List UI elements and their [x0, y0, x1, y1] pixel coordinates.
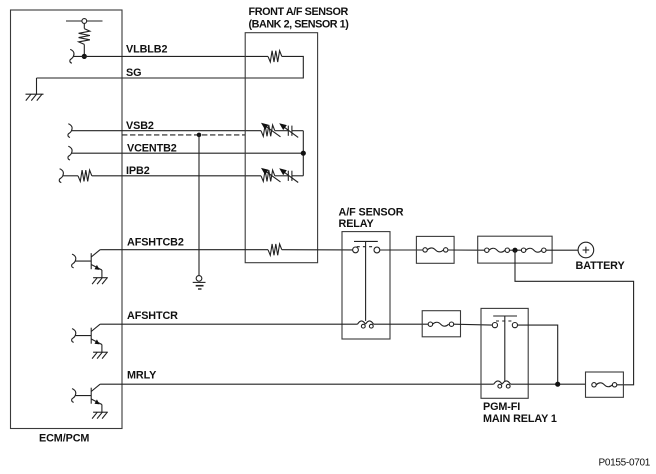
svg-text:A/F SENSOR: A/F SENSOR	[339, 206, 404, 218]
svg-text:VLBLB2: VLBLB2	[126, 43, 167, 55]
svg-text:VCENTB2: VCENTB2	[127, 142, 177, 154]
connector squiggle (VSB2)	[68, 124, 72, 138]
wire IPB2 left	[63, 175, 78, 177]
wire (fuse block junction down)	[515, 250, 634, 385]
battery terminal	[578, 242, 594, 258]
wire AFSHTCB2	[100, 249, 268, 251]
svg-text:RELAY: RELAY	[339, 218, 375, 230]
node junction (dashed line)	[197, 133, 202, 138]
wire VLBLB2	[73, 55, 268, 57]
fuse F3	[521, 248, 546, 252]
connector squiggle (IPB2)	[59, 169, 63, 183]
relay K1 contact right	[374, 247, 380, 253]
relay K1 armature bar	[354, 240, 378, 242]
resistor (sensor heater)	[268, 244, 282, 255]
relay K1 coil	[358, 321, 374, 328]
battery plus	[583, 247, 590, 254]
resistor (sensor label element)	[268, 51, 282, 62]
wire (resistor to node)	[83, 44, 85, 56]
fuse block (double)	[478, 236, 552, 263]
wire (sensor right vertical)	[302, 131, 304, 176]
fuse F5	[592, 383, 617, 387]
dashed line (VSB2 shield)	[122, 134, 245, 136]
connector squiggle (VLBLB2)	[70, 49, 74, 63]
wire (pull-up top rail)	[66, 20, 103, 22]
PGM-FI MAIN RELAY 1 box	[481, 308, 528, 398]
relay K1 dashed contact	[357, 246, 374, 248]
wire (coil out to junction)	[511, 383, 586, 385]
fuse box 2 (relay control)	[422, 311, 460, 337]
variable capacitor (sensor cell, IPB2)	[279, 168, 298, 182]
relay K2 contact right	[512, 323, 517, 328]
fuse F1	[423, 248, 448, 252]
variable resistor (sensor cell, VSB2)	[261, 123, 281, 137]
node junction (sensor mid)	[301, 151, 306, 156]
node junction VLBLB2	[82, 54, 87, 59]
svg-text:(BANK 2, SENSOR 1): (BANK 2, SENSOR 1)	[249, 18, 350, 30]
wire (relay to fuse 1)	[380, 249, 423, 251]
wire (shield drop)	[198, 135, 200, 276]
wire (coil to fuse 2)	[374, 323, 429, 325]
fuse box 1 (A/F heater)	[416, 236, 454, 263]
svg-text:PGM-FI: PGM-FI	[483, 401, 520, 413]
FRONT A/F SENSOR box	[245, 33, 317, 263]
wire (cap to corner)	[292, 130, 303, 132]
wire (circle to resistor)	[83, 23, 85, 28]
wire (between elements)	[275, 130, 288, 132]
wire (K2 switch out, down to junction)	[518, 325, 558, 384]
variable resistor (sensor cell, IPB2)	[261, 168, 281, 182]
ground (SG)	[26, 94, 44, 100]
relay K2 contact left	[492, 323, 497, 328]
variable capacitor (sensor cell, VSB2)	[279, 123, 298, 137]
svg-text:SG: SG	[126, 67, 141, 79]
relay K2 coil	[494, 381, 511, 388]
svg-text:IPB2: IPB2	[126, 165, 150, 177]
wire VSB2	[72, 130, 262, 132]
svg-text:BATTERY: BATTERY	[576, 260, 626, 272]
A/F SENSOR RELAY box	[342, 232, 390, 339]
svg-text:MRLY: MRLY	[127, 370, 157, 382]
node junction (MRLY power)	[555, 382, 560, 387]
terminal circle (pull-up top)	[82, 19, 87, 24]
svg-text:ECM/PCM: ECM/PCM	[39, 433, 89, 445]
svg-text:AFSHTCB2: AFSHTCB2	[127, 237, 184, 249]
svg-text:MAIN RELAY 1: MAIN RELAY 1	[483, 413, 557, 425]
node junction (fuse block)	[512, 248, 517, 253]
fuse F2	[485, 248, 522, 252]
resistor (IPB2 internal)	[78, 170, 92, 181]
ECM/PCM box	[11, 10, 123, 429]
relay K1 contact left	[353, 247, 359, 253]
svg-text:FRONT A/F SENSOR: FRONT A/F SENSOR	[249, 6, 349, 18]
transistor Q3 (MRLY driver)	[72, 384, 108, 418]
transistor Q2 (AFSHTCR driver)	[72, 324, 108, 358]
relay K2 armature bar	[493, 315, 517, 317]
wire AFSHTCR	[100, 323, 357, 325]
relay K2 link	[504, 316, 506, 381]
fuse box 3 (bottom right)	[586, 372, 624, 397]
ground (shield, circle type)	[193, 276, 206, 289]
wire (fuse to PGM-FI relay)	[454, 323, 492, 326]
wire IPB2	[92, 175, 261, 177]
connector squiggle (VCENTB2)	[68, 146, 72, 160]
wire SG drop	[36, 78, 38, 94]
wire MRLY	[100, 383, 494, 385]
resistor (internal pull-up)	[79, 29, 90, 45]
svg-text:P0155-0701: P0155-0701	[599, 457, 651, 468]
wire (fuse block to battery)	[546, 249, 578, 251]
transistor Q1 (AFSHTCB2 driver)	[72, 250, 108, 284]
relay K1 link	[365, 241, 367, 321]
wire (between elements)	[275, 175, 288, 177]
svg-text:AFSHTCR: AFSHTCR	[127, 310, 178, 322]
wire (cap to corner)	[292, 175, 303, 177]
wire (heater to relay)	[282, 249, 353, 251]
wire (resistor to corner)	[37, 56, 304, 78]
wire VCENTB2	[72, 152, 304, 154]
relay K2 dashed contact	[496, 320, 513, 322]
svg-text:VSB2: VSB2	[126, 120, 154, 132]
wire (fuse1 to fuse block)	[448, 249, 485, 251]
fuse F4	[428, 322, 454, 326]
